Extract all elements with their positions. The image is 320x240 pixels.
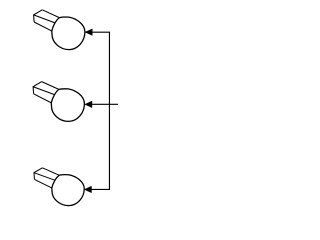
arrowhead into node A (85, 29, 92, 36)
wire: top branch + bus vertical + bottom branch (91, 32, 110, 189)
arrowhead into node C (84, 186, 91, 193)
arrowhead into node B (85, 101, 92, 108)
node B (middle symbol) (33, 82, 84, 122)
node A (top symbol) (34, 10, 85, 50)
wire: middle branch with right stub (91, 103, 119, 105)
node C (bottom symbol) (34, 168, 84, 206)
